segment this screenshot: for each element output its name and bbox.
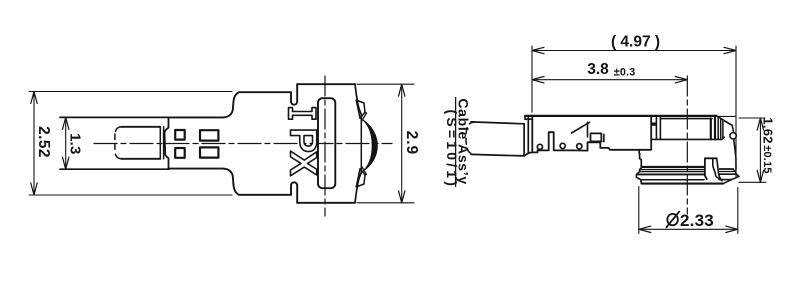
svg-text:2.52: 2.52 xyxy=(35,126,52,158)
contact block in gap xyxy=(652,122,656,125)
dimension 1.3 line xyxy=(65,117,67,169)
dimension 1.62 extension top xyxy=(718,116,766,118)
retention tab lower xyxy=(356,169,365,187)
dimension phi2.33 extension left xyxy=(638,187,640,234)
svg-text:2.9: 2.9 xyxy=(403,131,420,156)
arrow phi2.33 left xyxy=(639,226,651,232)
arrow 1.3 up xyxy=(63,117,69,129)
ring line 2 xyxy=(640,169,705,171)
dimension phi2.33 line xyxy=(639,228,738,230)
ring line 3 xyxy=(640,171,705,173)
svg-text:1.62: 1.62 xyxy=(761,117,776,144)
arrow 3.8 left xyxy=(532,77,544,83)
svg-text:1.3: 1.3 xyxy=(67,133,84,154)
arrow 1.62 up xyxy=(757,118,763,130)
crimp barrel outline xyxy=(165,117,169,168)
crimp tab small square lower xyxy=(175,148,185,158)
body top edge xyxy=(239,91,291,93)
shell top edge xyxy=(526,115,717,117)
body transition S-curve top xyxy=(223,92,240,117)
crimp tab small square upper xyxy=(175,130,185,140)
svg-text:X: X xyxy=(281,151,323,177)
right edge with clip bump xyxy=(732,125,736,169)
crimp window rect upper xyxy=(200,130,218,140)
shell insert rounded rect xyxy=(318,98,335,188)
letter I (stencil) xyxy=(289,108,317,120)
centerline vertical (mating axis, left view) xyxy=(324,76,326,216)
dimension 3.8 line xyxy=(532,79,687,81)
ring bottom line xyxy=(642,183,723,185)
body transition S-curve bottom xyxy=(223,169,240,195)
boot left cap dashed xyxy=(466,122,475,155)
ferrule (crimped sleeve, hidden left end dashed) xyxy=(121,127,160,159)
ring right profile xyxy=(733,169,736,174)
ring right line 2 xyxy=(720,171,735,173)
slot top U xyxy=(291,84,297,105)
body left tab xyxy=(525,116,532,120)
svg-text:±0.15: ±0.15 xyxy=(761,145,773,173)
flange top edge xyxy=(297,83,355,85)
crimp ring lines under chamfer xyxy=(718,118,723,140)
socket chord line xyxy=(360,114,362,173)
dimension 1.62 extension bottom xyxy=(739,181,766,183)
keyway tower xyxy=(705,158,717,179)
svg-text:P: P xyxy=(281,128,323,153)
dimension 2.9 extension top xyxy=(357,83,414,85)
boot chamfer xyxy=(524,152,532,156)
barrel top line xyxy=(660,118,712,120)
arrow 1.3 down xyxy=(63,157,69,169)
svg-text:±0.3: ±0.3 xyxy=(614,67,636,79)
dimension 2.52 line xyxy=(33,92,35,196)
phi symbol of 2.33 xyxy=(667,214,678,225)
fold diagonal line xyxy=(572,122,590,133)
arrow 4.97 right xyxy=(724,47,736,53)
dimension 2.9 line xyxy=(401,84,403,203)
ring right band bottom xyxy=(719,179,731,181)
boot top edge xyxy=(471,122,524,124)
wire cable outline top xyxy=(60,116,169,118)
dimension phi2.33 extension right xyxy=(737,188,739,234)
boot bottom edge xyxy=(471,154,524,156)
dome inner tick upper xyxy=(361,112,366,121)
barrel left cap xyxy=(659,116,661,139)
chamfer corner double xyxy=(717,116,733,126)
clip bump circle xyxy=(730,133,736,139)
flange right edge upper slant xyxy=(355,84,361,114)
svg-text:3.8: 3.8 xyxy=(587,61,609,78)
dimension 4.97 line xyxy=(532,50,736,52)
mount hole circle 3 xyxy=(577,144,582,149)
barrel bottom line xyxy=(652,137,724,139)
crimp top edge xyxy=(169,116,223,118)
dimension 2.52 extension bottom xyxy=(29,194,232,196)
contact box xyxy=(591,133,604,141)
arrow 1.62 down xyxy=(757,170,763,182)
body bottom edge xyxy=(239,194,291,196)
ring line 5 xyxy=(641,179,704,181)
crimp window rect lower xyxy=(200,147,218,157)
dimension 4.97 extension left xyxy=(531,46,533,112)
ring line 1 xyxy=(643,166,705,168)
arrow 2.52 down xyxy=(31,183,37,195)
centerline vertical (plug axis, side view) xyxy=(686,76,688,214)
fold vertical line xyxy=(587,122,589,137)
boot right end vertical xyxy=(523,124,525,156)
keyway hook inner curve xyxy=(713,159,719,179)
ring line 4 xyxy=(637,173,705,175)
arrow 2.52 up xyxy=(31,92,37,104)
slot bottom U xyxy=(291,182,297,203)
ring right tip wedge xyxy=(724,174,740,183)
body bottom rear edge xyxy=(639,149,651,151)
barrel right cap lines xyxy=(711,116,715,139)
arrow 2.9 up xyxy=(399,84,405,96)
arrow 2.9 down xyxy=(399,191,405,203)
mount hole circle 1 xyxy=(537,144,542,149)
svg-text:(S=10/1): (S=10/1) xyxy=(444,109,460,189)
socket dome crescent xyxy=(362,119,378,173)
dimension 2.52 extension top xyxy=(29,91,232,93)
arrow phi2.33 right xyxy=(726,226,738,232)
ring right line 3 xyxy=(720,173,737,175)
retention tab upper xyxy=(356,100,365,118)
ring step down left xyxy=(639,150,641,167)
cable assy leader underline xyxy=(455,98,457,187)
ring right line 1 xyxy=(720,168,733,170)
mount hole circle 2 xyxy=(560,143,565,148)
keyway hook outer curve xyxy=(717,158,722,181)
flange bottom edge xyxy=(297,202,355,204)
svg-text:( 4.97 ): ( 4.97 ) xyxy=(611,33,660,50)
svg-text:2.33: 2.33 xyxy=(680,211,714,230)
wire cable outline bottom xyxy=(60,168,169,170)
boot second vertical xyxy=(527,118,529,153)
ring left profile zigzag xyxy=(636,167,642,184)
gap strip line xyxy=(655,116,657,139)
crimp bottom edge xyxy=(169,168,223,170)
body left edge xyxy=(531,116,533,153)
centerline horizontal (left view axis) xyxy=(94,143,392,145)
dome inner tick lower xyxy=(361,166,366,175)
body right edge xyxy=(650,116,652,149)
flange right edge lower slant xyxy=(355,173,361,203)
arrow 3.8 right xyxy=(675,77,687,83)
dimension 2.9 extension bottom xyxy=(357,202,414,204)
arrow 4.97 left xyxy=(532,47,544,53)
body bottom profile xyxy=(532,132,639,152)
dimension 1.62 line xyxy=(759,118,761,182)
dimension 4.97 extension right xyxy=(735,46,737,177)
